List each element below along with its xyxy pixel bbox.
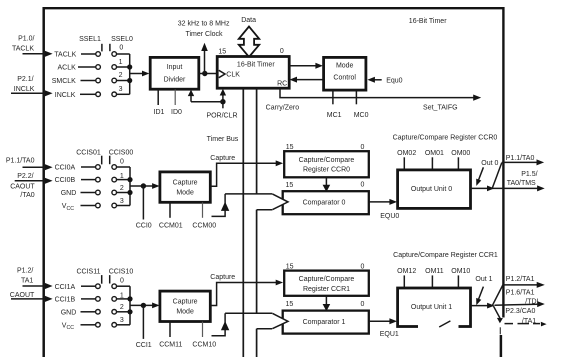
- svg-text:CCI1: CCI1: [136, 342, 152, 349]
- svg-text:MC0: MC0: [354, 112, 369, 119]
- svg-text:OM01: OM01: [425, 150, 444, 157]
- svg-text:Out 1: Out 1: [475, 276, 492, 283]
- svg-text:Capture: Capture: [210, 155, 235, 162]
- svg-text:TA0/TMS: TA0/TMS: [507, 180, 536, 187]
- pin label P2.2/CAOUT/TA0: [10, 173, 35, 199]
- svg-text:CCM01: CCM01: [159, 223, 183, 230]
- svg-text:SSEL0: SSEL0: [111, 36, 133, 43]
- cci1 mux position labels 0 1 2 3: [120, 278, 124, 325]
- wire divider output to timer CLK: [199, 73, 217, 75]
- svg-text:Register CCR1: Register CCR1: [303, 286, 350, 293]
- svg-text:CCIS01: CCIS01: [76, 149, 101, 156]
- CCM00 stub and label: [192, 202, 216, 229]
- svg-text:CCM10: CCM10: [192, 342, 216, 349]
- svg-text:Divider: Divider: [164, 76, 186, 83]
- svg-text:16-Bit Timer: 16-Bit Timer: [409, 18, 447, 25]
- svg-text:OM00: OM00: [451, 150, 470, 157]
- svg-text:CCM00: CCM00: [192, 223, 216, 230]
- svg-text:TACLK: TACLK: [12, 46, 34, 53]
- svg-text:CCI1B: CCI1B: [55, 297, 76, 304]
- cci0 mux position labels 0 1 2 3: [120, 158, 124, 205]
- svg-text:15: 15: [286, 301, 294, 308]
- svg-text:0: 0: [119, 44, 123, 51]
- svg-text:3: 3: [120, 317, 124, 324]
- svg-text:2: 2: [120, 185, 124, 192]
- svg-text:P1.5/: P1.5/: [521, 171, 537, 178]
- svg-text:P2.3/CA0: P2.3/CA0: [505, 308, 535, 315]
- svg-text:0: 0: [280, 48, 284, 55]
- clock mux contacts column 2: [112, 52, 117, 97]
- svg-text:CLK: CLK: [226, 72, 240, 79]
- junction dot cci1: [141, 303, 146, 308]
- svg-text:0: 0: [360, 181, 364, 188]
- timer bus rail 2 segment c: [256, 329, 258, 357]
- svg-text:SMCLK: SMCLK: [52, 78, 76, 85]
- net label GND 1: [61, 310, 96, 317]
- wire Equ0: [367, 77, 381, 83]
- svg-text:/TDI: /TDI: [525, 298, 538, 305]
- timer bus rail 1: [242, 88, 244, 357]
- svg-text:Timer Bus: Timer Bus: [207, 136, 239, 143]
- cci1 mux contacts column 1: [96, 284, 101, 327]
- block Input Divider: [150, 57, 199, 89]
- svg-text:CCIS10: CCIS10: [109, 269, 134, 276]
- CCM10 stub and label: [192, 322, 216, 349]
- wire timer to mode control: [289, 63, 323, 69]
- svg-text:EQU0: EQU0: [380, 213, 399, 220]
- wire capture 1: [210, 280, 283, 306]
- wire CCI1B input: [11, 296, 53, 302]
- svg-text:GND: GND: [61, 310, 77, 317]
- net label GND: [61, 190, 96, 197]
- svg-text:0: 0: [120, 158, 124, 165]
- svg-text:OM02: OM02: [397, 150, 416, 157]
- svg-text:Data: Data: [241, 17, 256, 24]
- wire comparator 1 lower tap: [257, 328, 273, 330]
- svg-text:OM12: OM12: [397, 268, 416, 275]
- svg-text:Register CCR0: Register CCR0: [303, 167, 350, 174]
- svg-text:2: 2: [119, 72, 123, 79]
- svg-text:CAOUT: CAOUT: [10, 292, 35, 299]
- net label SMCLK: [52, 78, 96, 85]
- wire P1.1/TA0 output: [502, 159, 544, 165]
- MC0 stub and label: [354, 90, 369, 119]
- block Mode Control: [324, 57, 366, 90]
- wire out 1 branch diagonal down: [494, 306, 501, 318]
- svg-text:Capture: Capture: [210, 274, 235, 281]
- wire cci0 down: [142, 186, 144, 220]
- net label CCI0B: [55, 177, 96, 184]
- wire P1.2/TA1 output: [503, 282, 545, 288]
- junction dot cci0: [141, 183, 146, 188]
- svg-text:2: 2: [120, 304, 124, 311]
- OM0x stubs: [404, 157, 458, 170]
- SSEL0 control tick: [109, 44, 111, 51]
- junction dot cci0 rail row2: [127, 190, 132, 195]
- wire EQU1: [369, 318, 397, 324]
- clock mux contacts column 1: [96, 52, 101, 97]
- svg-text:/TA1: /TA1: [522, 318, 536, 325]
- svg-text:P1.2/: P1.2/: [17, 268, 33, 275]
- svg-text:Comparator 0: Comparator 0: [303, 200, 346, 207]
- comparator 1 input chevron: [272, 313, 289, 330]
- svg-text:3: 3: [120, 198, 124, 205]
- svg-text:0: 0: [120, 278, 124, 285]
- svg-text:Output Unit 0: Output Unit 0: [411, 186, 452, 193]
- svg-text:16-Bit Timer: 16-Bit Timer: [237, 61, 275, 68]
- cci0 mux contacts column 1: [96, 165, 101, 208]
- block Output Unit 0: [398, 170, 471, 209]
- svg-text:SSEL1: SSEL1: [79, 36, 101, 43]
- wire cci0 mux to capture mode: [130, 183, 160, 189]
- svg-text:CCM11: CCM11: [159, 342, 182, 349]
- clk chevron: [219, 70, 225, 77]
- svg-text:OM10: OM10: [451, 268, 470, 275]
- net label INCLK: [55, 92, 96, 99]
- svg-text:0: 0: [360, 301, 364, 308]
- module left border: [42, 7, 45, 357]
- right border lower remnant thick: [500, 335, 503, 357]
- junction dot rail SMCLK: [127, 78, 132, 83]
- block Capture/Compare Register CCR0: [284, 151, 369, 177]
- wire Carry/Zero Set_TAIFG: [280, 88, 481, 100]
- svg-text:INCLK: INCLK: [55, 92, 76, 99]
- wire CCI0A input: [23, 164, 53, 170]
- block Comparator 1: [283, 311, 369, 334]
- svg-text:Mode: Mode: [176, 309, 194, 316]
- dashed TA1 output: [505, 322, 547, 327]
- svg-text:RC: RC: [277, 81, 287, 88]
- junction dot cci0 rail row1: [127, 177, 132, 182]
- sync path 0: [212, 194, 230, 217]
- svg-text:Capture/Compare: Capture/Compare: [299, 157, 355, 164]
- cci0 mux contacts column 2: [112, 165, 117, 208]
- svg-text:MC1: MC1: [327, 112, 342, 119]
- right border lower remnant thin: [499, 327, 501, 334]
- CCIS10 control tick: [109, 275, 111, 283]
- svg-text:P1.2/TA1: P1.2/TA1: [506, 276, 535, 283]
- ID0 stub and label: [171, 90, 182, 117]
- wire INCLK input: [11, 90, 53, 96]
- svg-text:Input: Input: [167, 64, 183, 71]
- svg-text:TACLK: TACLK: [54, 52, 76, 59]
- out 1 pointer arrow: [476, 287, 483, 306]
- wire mux to Input Divider: [130, 71, 150, 77]
- net label CCI1B: [55, 297, 96, 304]
- svg-text:Timer Clock: Timer Clock: [185, 31, 223, 38]
- svg-text:P1.0/: P1.0/: [18, 35, 34, 42]
- svg-text:EQU1: EQU1: [380, 331, 399, 338]
- junction dot cci1 rail row1: [127, 296, 132, 301]
- svg-text:Output Unit 1: Output Unit 1: [411, 304, 452, 311]
- svg-text:Capture/Compare: Capture/Compare: [299, 276, 355, 283]
- net label CCI0A: [55, 165, 96, 172]
- sync path 1: [212, 313, 230, 336]
- wire out 1: [471, 301, 545, 308]
- svg-text:P2.2/: P2.2/: [17, 173, 33, 180]
- svg-text:ID0: ID0: [171, 109, 182, 116]
- svg-text:Carry/Zero: Carry/Zero: [266, 104, 300, 111]
- svg-text:P1.1/TA0: P1.1/TA0: [506, 155, 535, 162]
- wire CCI1A input: [23, 283, 53, 289]
- svg-text:Mode: Mode: [336, 63, 354, 70]
- POR/CLR net: [188, 89, 226, 109]
- svg-text:/TA0: /TA0: [20, 192, 34, 199]
- wire EQU0: [369, 199, 397, 205]
- svg-text:ID1: ID1: [154, 109, 165, 116]
- svg-text:CCI0A: CCI0A: [55, 165, 76, 172]
- CCM01 stub and label: [159, 202, 183, 229]
- svg-text:ACLK: ACLK: [58, 65, 77, 72]
- cci1 mux output rail: [117, 286, 130, 325]
- svg-text:P1.6/TA1: P1.6/TA1: [506, 289, 535, 296]
- svg-text:32 kHz to 8 MHz: 32 kHz to 8 MHz: [178, 21, 230, 28]
- timer bus rail 2 segment a: [256, 88, 258, 194]
- junction dot rail ACLK: [127, 64, 132, 69]
- net label VCC 1: [62, 323, 96, 332]
- ID1 stub and label: [154, 90, 165, 117]
- wire mode control to RC: [290, 77, 324, 83]
- timer clock up arrow: [201, 43, 208, 74]
- module top border: [43, 7, 505, 9]
- wire TACLK input: [23, 51, 53, 57]
- svg-text:15: 15: [218, 48, 226, 55]
- net label ACLK: [58, 65, 96, 72]
- junction dot divider output: [202, 71, 207, 76]
- clock mux output rail: [117, 54, 130, 94]
- svg-text:INCLK: INCLK: [14, 86, 35, 93]
- block Capture Mode 0: [160, 172, 210, 202]
- wire out 0 branch diagonal: [492, 163, 502, 189]
- svg-text:P1.1/TA0: P1.1/TA0: [6, 157, 35, 164]
- block Comparator 0: [283, 191, 369, 214]
- svg-text:Capture/Compare Register CCR0: Capture/Compare Register CCR0: [393, 134, 498, 141]
- block Capture/Compare Register CCR1: [284, 271, 369, 296]
- output unit 1 bottom erasure: [418, 321, 459, 330]
- svg-text:Set_TAIFG: Set_TAIFG: [423, 105, 458, 112]
- svg-text:POR/CLR: POR/CLR: [206, 113, 237, 120]
- wire cci1 mux to capture mode: [130, 303, 160, 309]
- CCIS00 control tick: [109, 156, 111, 165]
- timer bus rail 2 segment b: [256, 210, 258, 314]
- out 0 pointer arrow: [476, 167, 483, 186]
- svg-text:P2.1/: P2.1/: [17, 76, 33, 83]
- svg-text:OM11: OM11: [425, 268, 444, 275]
- svg-text:CCI0: CCI0: [136, 223, 152, 230]
- clock mux position labels 0 1 2 3: [119, 44, 124, 93]
- svg-text:Capture: Capture: [173, 179, 198, 186]
- CCM11 stub and label: [159, 322, 182, 349]
- svg-text:Mode: Mode: [176, 189, 194, 196]
- CCIS11 control tick: [101, 275, 103, 284]
- OM1x stubs: [404, 275, 458, 288]
- block Capture Mode 1: [160, 291, 210, 321]
- svg-text:CCI1A: CCI1A: [55, 284, 76, 291]
- net label VCC: [62, 203, 96, 212]
- svg-text:Out 0: Out 0: [481, 160, 498, 167]
- comparator 0 input chevron: [272, 193, 289, 210]
- net label CCI1A: [55, 284, 96, 291]
- SSEL1 control tick: [101, 44, 103, 52]
- svg-text:Control: Control: [333, 74, 356, 81]
- svg-text:CCI0B: CCI0B: [55, 177, 76, 184]
- MC1 stub and label: [327, 90, 342, 119]
- CCIS01 control tick: [101, 156, 103, 165]
- wire CCR0 to comparator 0: [323, 177, 331, 192]
- svg-text:15: 15: [286, 182, 294, 189]
- right border break arrowhead: [497, 318, 503, 323]
- wire comparator 0 upper tap: [225, 193, 273, 195]
- svg-text:Equ0: Equ0: [386, 78, 402, 85]
- svg-text:Comparator 1: Comparator 1: [303, 319, 346, 326]
- block Output Unit 1: [398, 288, 471, 327]
- wire comparator 0 lower tap: [257, 209, 273, 211]
- pin label P1.2/TA1: [17, 268, 33, 285]
- wire CCR1 to comparator 1: [323, 296, 331, 311]
- wire capture 0: [210, 160, 283, 186]
- svg-text:Capture/Compare Register CCR1: Capture/Compare Register CCR1: [393, 252, 498, 259]
- block 16-Bit Timer: [217, 57, 289, 89]
- cci0 mux output rail: [117, 167, 130, 206]
- wire comparator 1 upper tap: [225, 312, 273, 314]
- net label TACLK: [54, 52, 95, 59]
- junction dot cci1 rail row2: [127, 309, 132, 314]
- wire CCI0B input: [15, 178, 53, 184]
- svg-text:1: 1: [119, 59, 123, 66]
- cci1 mux contacts column 2: [112, 284, 117, 327]
- svg-text:CCIS11: CCIS11: [77, 269, 101, 276]
- wire out 1 branch diagonal up: [493, 285, 503, 305]
- svg-text:3: 3: [119, 86, 123, 93]
- svg-text:Capture: Capture: [173, 299, 198, 306]
- svg-text:TA1: TA1: [21, 277, 33, 284]
- svg-text:GND: GND: [61, 190, 77, 197]
- wire cci1 down: [142, 305, 144, 339]
- module right border: [502, 7, 504, 318]
- svg-text:CCIS00: CCIS00: [109, 149, 134, 156]
- wire out 0: [471, 185, 545, 191]
- data bus double arrow: [239, 27, 259, 58]
- svg-text:CAOUT: CAOUT: [10, 184, 35, 191]
